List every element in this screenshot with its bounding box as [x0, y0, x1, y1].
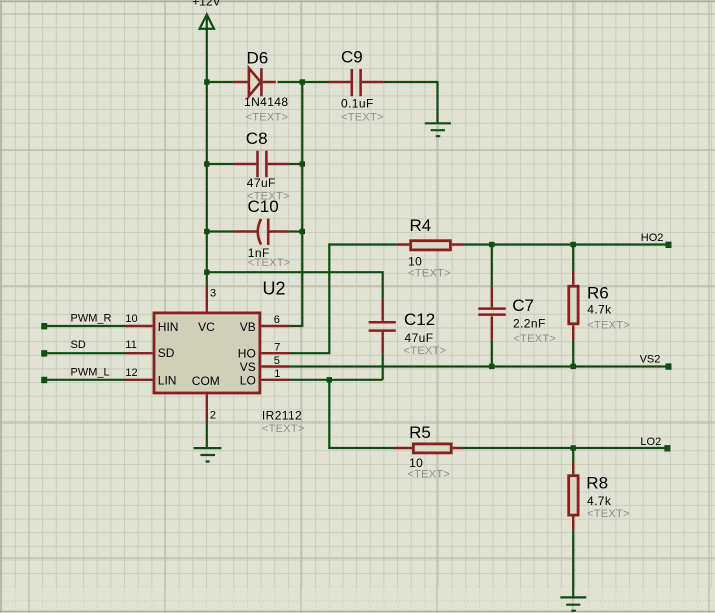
wire LO2 net — [463, 447, 668, 449]
terminal LO2 — [664, 445, 670, 451]
svg-text:R6: R6 — [587, 283, 609, 302]
svg-text:<TEXT>: <TEXT> — [246, 112, 289, 124]
svg-text:SD: SD — [71, 339, 86, 351]
pin VB stub — [261, 325, 290, 327]
wire VS2 net — [290, 365, 669, 367]
svg-text:4.7k: 4.7k — [587, 303, 612, 317]
svg-text:C8: C8 — [246, 129, 268, 148]
pin HIN stub — [126, 325, 153, 327]
node rail-VC branch — [204, 270, 209, 275]
pin LIN stub — [126, 379, 153, 381]
node rail2-C8 — [300, 161, 305, 166]
svg-text:<TEXT>: <TEXT> — [407, 468, 450, 480]
resistor R4 — [397, 216, 464, 279]
node VS2-R6 — [571, 364, 576, 369]
node rail2-C10 — [300, 229, 305, 234]
svg-text:<TEXT>: <TEXT> — [408, 267, 451, 279]
terminal SD — [41, 350, 47, 356]
pin VS stub — [261, 365, 290, 367]
svg-text:11: 11 — [125, 339, 136, 351]
svg-text:R5: R5 — [409, 423, 431, 442]
svg-text:4.7k: 4.7k — [587, 494, 612, 508]
svg-text:HO: HO — [238, 347, 256, 361]
svg-text:U2: U2 — [263, 279, 286, 299]
svg-text:2: 2 — [210, 409, 216, 421]
wire HO2 net — [464, 243, 669, 245]
svg-text:VC: VC — [198, 320, 215, 334]
resistor R8 — [569, 448, 630, 530]
svg-text:<TEXT>: <TEXT> — [513, 333, 556, 345]
capacitor C12 — [369, 299, 447, 357]
wire LO pin1 row — [290, 379, 383, 381]
ground (R8) — [560, 597, 586, 610]
capacitor C7 — [478, 245, 556, 367]
svg-text:<TEXT>: <TEXT> — [262, 423, 305, 435]
svg-text:LO2: LO2 — [640, 436, 661, 448]
svg-text:PWM_L: PWM_L — [71, 367, 110, 379]
terminal HO2 — [666, 242, 672, 248]
wire C10 row left — [207, 230, 234, 232]
resistor R6 — [569, 245, 630, 367]
svg-text:2.2nF: 2.2nF — [513, 317, 546, 331]
terminal VS2 — [666, 363, 672, 369]
svg-text:47uF: 47uF — [247, 176, 276, 190]
diode D6 — [233, 49, 288, 124]
wire C8 to right rail — [289, 163, 302, 165]
pin LO stub — [261, 379, 290, 381]
svg-text:SD: SD — [158, 346, 175, 360]
svg-text:<TEXT>: <TEXT> — [248, 257, 291, 269]
pin 3 VC stub — [206, 285, 208, 312]
wire C10 to right rail — [289, 230, 302, 232]
svg-text:3: 3 — [210, 288, 216, 300]
capacitor C9 — [329, 48, 384, 124]
svg-text:LO: LO — [240, 373, 256, 387]
terminal PWM_R — [41, 323, 47, 329]
pin HO stub — [261, 352, 290, 354]
wire C9 to ground — [383, 82, 437, 123]
svg-text:HO2: HO2 — [641, 232, 664, 244]
ground (COM) — [194, 448, 222, 461]
wire C12 bottom to LO row — [382, 353, 384, 379]
node HO2-R6 — [571, 242, 576, 247]
svg-text:C10: C10 — [248, 197, 279, 216]
node rail-C8 — [204, 161, 209, 166]
wire D6 row left — [207, 81, 233, 83]
svg-text:1N4148: 1N4148 — [244, 95, 288, 109]
wire +12V rail — [206, 15, 208, 285]
wire LO down to R5 — [329, 380, 394, 448]
node VS2-C7 — [489, 364, 494, 369]
wire PWM_R input — [45, 325, 126, 327]
wire SD input — [45, 352, 126, 354]
capacitor C8 — [234, 129, 290, 203]
svg-text:R8: R8 — [586, 473, 608, 492]
node HO2-C7 — [489, 242, 494, 247]
node LO2-R8 — [571, 445, 576, 450]
svg-text:<TEXT>: <TEXT> — [587, 320, 630, 332]
svg-text:IR2112: IR2112 — [262, 408, 302, 422]
node rail-C10 — [204, 229, 209, 234]
svg-text:C12: C12 — [404, 310, 435, 329]
ground (C9) — [425, 123, 451, 136]
op-amp driver U2 IR2112 — [154, 279, 305, 435]
svg-text:6: 6 — [274, 314, 280, 326]
svg-text:VB: VB — [240, 320, 256, 334]
svg-text:VS: VS — [240, 360, 256, 374]
svg-text:D6: D6 — [247, 49, 269, 68]
svg-text:+12V: +12V — [192, 0, 220, 9]
node rail-D6 — [204, 79, 209, 84]
node rail2-D6 — [300, 79, 305, 84]
svg-text:5: 5 — [274, 355, 280, 367]
wire C8 row left — [207, 163, 234, 165]
capacitor C10 — [234, 197, 290, 269]
pin 2 COM stub — [206, 394, 208, 421]
node LO branch — [327, 377, 332, 382]
svg-text:<TEXT>: <TEXT> — [587, 508, 630, 520]
svg-text:LIN: LIN — [158, 373, 177, 387]
wire C9 left — [302, 81, 328, 83]
svg-text:7: 7 — [274, 341, 280, 353]
svg-text:47uF: 47uF — [405, 331, 434, 345]
wire COM to ground — [206, 422, 208, 448]
wire D6 to right rail — [278, 81, 303, 83]
wire right rail to VB pin 6 — [290, 82, 302, 326]
pin SD stub — [126, 352, 153, 354]
power arrow symbol — [200, 15, 214, 29]
svg-text:PWM_R: PWM_R — [71, 312, 112, 324]
svg-text:1: 1 — [274, 368, 280, 380]
svg-text:12: 12 — [125, 367, 137, 379]
svg-text:HIN: HIN — [158, 320, 179, 334]
wire R8 to ground — [572, 530, 574, 597]
resistor R5 — [394, 423, 463, 480]
wire PWM_L input — [45, 379, 126, 381]
svg-text:0.1uF: 0.1uF — [341, 96, 374, 110]
svg-text:C9: C9 — [341, 48, 363, 67]
svg-text:VS2: VS2 — [640, 354, 661, 366]
svg-text:<TEXT>: <TEXT> — [341, 111, 384, 123]
svg-text:10: 10 — [125, 313, 137, 325]
wire HO pin7 up and to R4 — [290, 245, 397, 354]
wire VC rail to C12 top — [207, 272, 383, 299]
svg-text:R4: R4 — [410, 216, 432, 235]
svg-text:<TEXT>: <TEXT> — [404, 345, 447, 357]
svg-text:C7: C7 — [512, 296, 534, 315]
terminal PWM_L — [41, 377, 47, 383]
svg-text:COM: COM — [192, 374, 220, 388]
